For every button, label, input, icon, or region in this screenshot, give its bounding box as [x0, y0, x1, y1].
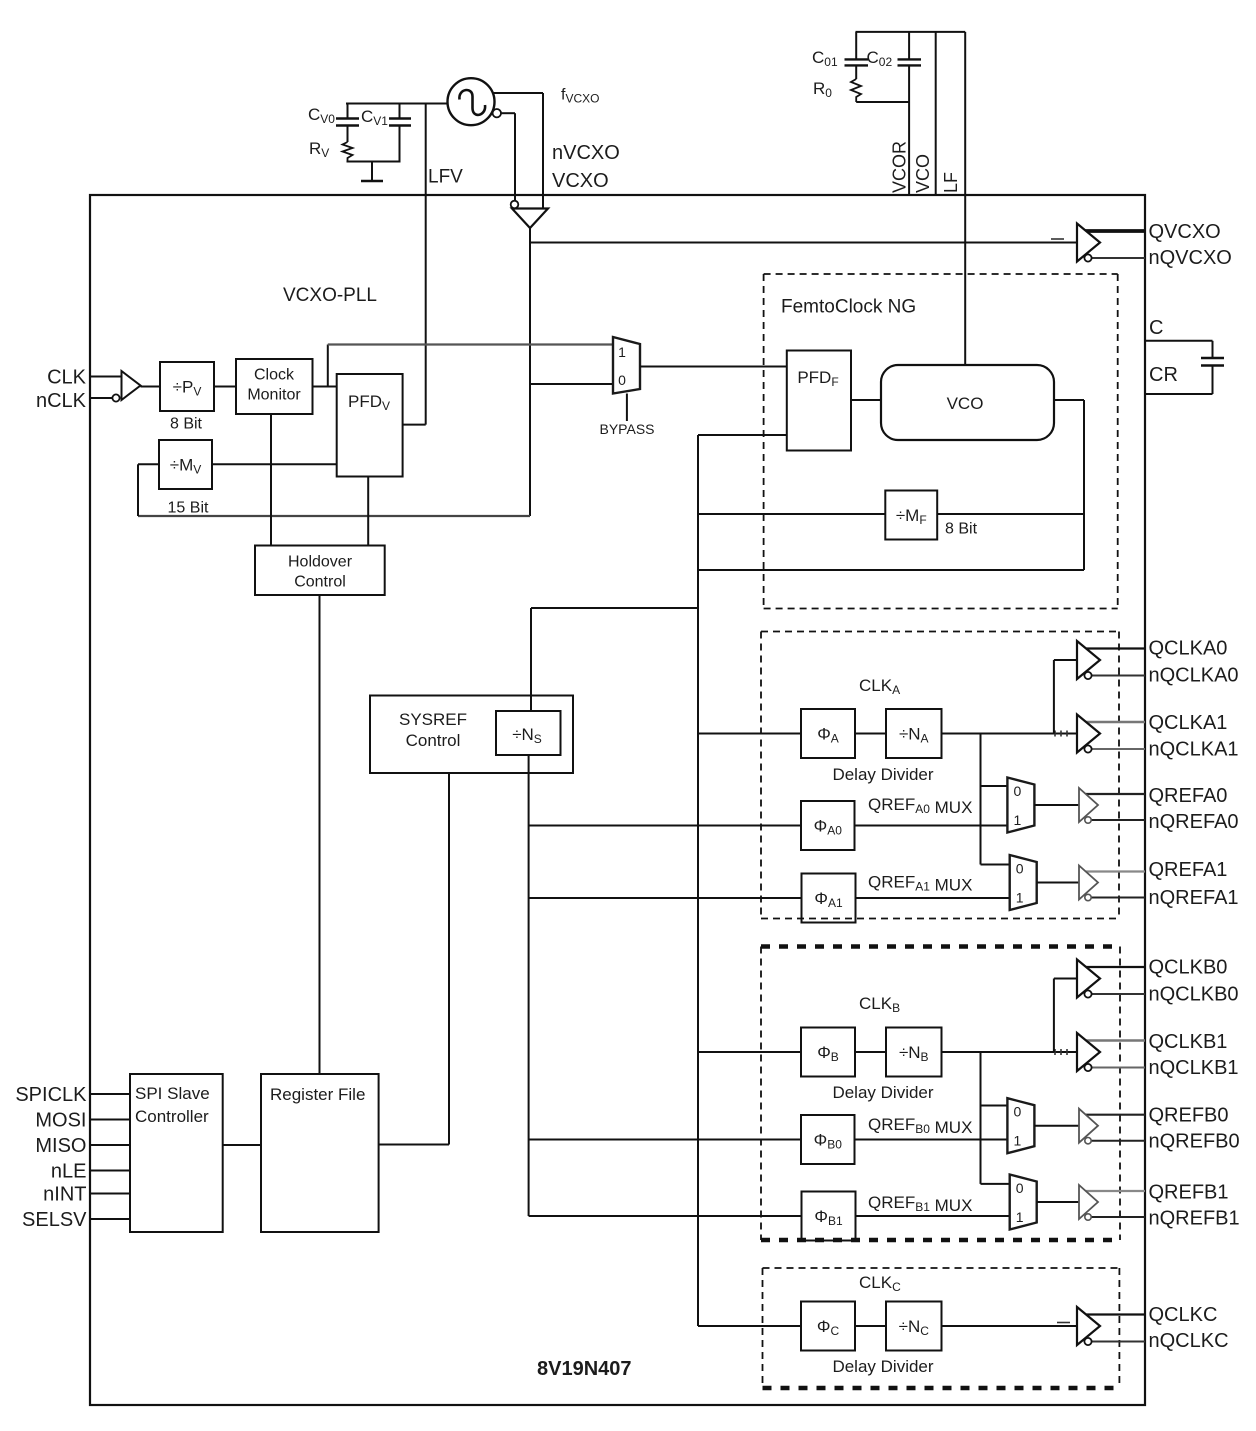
svg-text:VCO: VCO — [913, 154, 933, 193]
SPI Slave Controller block — [130, 1074, 223, 1232]
CLK input buffer — [112, 371, 140, 402]
svg-text:QCLKA0: QCLKA0 — [1149, 638, 1228, 660]
capacitor C02 — [898, 32, 922, 102]
svg-text:nQCLKB1: nQCLKB1 — [1149, 1057, 1239, 1079]
divider/phase block PhiA1 — [802, 874, 856, 923]
wire NA output — [942, 733, 1078, 735]
svg-text:QCLKB0: QCLKB0 — [1149, 957, 1228, 979]
wire to PhiA — [698, 733, 801, 735]
CLKB bank dashed boundary — [761, 947, 1120, 1241]
wire MISO pin — [90, 1144, 130, 1146]
divider NS — [496, 711, 561, 755]
svg-text:0: 0 — [1016, 1180, 1024, 1196]
wire to PhiB — [698, 1051, 801, 1053]
svg-text:BYPASS: BYPASS — [600, 421, 655, 437]
output buffer QCLKB0 — [1077, 960, 1145, 998]
svg-text:nQREFB0: nQREFB0 — [1149, 1131, 1240, 1153]
mux QREFB1 — [1010, 1175, 1037, 1230]
wire PhiA1 to mux — [856, 897, 1010, 899]
svg-text:nVCXO: nVCXO — [552, 142, 620, 164]
svg-text:nQVCXO: nQVCXO — [1149, 247, 1232, 269]
svg-text:Delay Divider: Delay Divider — [832, 1083, 933, 1102]
svg-text:FemtoClock NG: FemtoClock NG — [781, 297, 916, 318]
svg-text:Delay Divider: Delay Divider — [832, 765, 933, 784]
resistor RV — [343, 142, 353, 162]
svg-text:QCLKC: QCLKC — [1149, 1304, 1218, 1326]
svg-text:QREFB1: QREFB1 — [1149, 1182, 1229, 1204]
mux QREFB0 — [1007, 1098, 1034, 1153]
svg-text:8 Bit: 8 Bit — [170, 416, 203, 433]
wire PFDV output to LFV — [403, 424, 426, 426]
wire NS to PhiB0 — [529, 1139, 801, 1141]
svg-text:LF: LF — [941, 172, 961, 193]
divider/phase block ÷MF — [885, 491, 937, 540]
wire nVCXO from bubble — [501, 113, 515, 200]
svg-text:15 Bit: 15 Bit — [168, 500, 209, 517]
chip boundary box — [90, 195, 1145, 1405]
wire SYSREF Control to Register File link — [448, 773, 450, 1145]
wire PhiB to NB — [855, 1051, 886, 1053]
svg-text:Delay Divider: Delay Divider — [832, 1357, 933, 1376]
wire NS to PhiA0 — [529, 825, 801, 827]
wire MV to PFDV — [212, 463, 337, 465]
svg-text:VCXO: VCXO — [552, 170, 609, 192]
wire branch up to bypass mux input 1 — [328, 345, 613, 387]
wire branch to QCLKA0 — [1054, 660, 1077, 734]
wire SELSV pin — [90, 1218, 130, 1220]
wire SPICLK pin — [90, 1093, 130, 1095]
wire LF pin — [964, 32, 966, 195]
wire muxB1 to buffer — [1037, 1201, 1079, 1203]
svg-text:1: 1 — [1016, 1209, 1024, 1225]
wire MV loop bottom — [138, 515, 530, 517]
wire feedback into PFDF — [698, 434, 787, 436]
svg-text:nQREFB1: nQREFB1 — [1149, 1208, 1240, 1230]
output buffer QCLKC — [1077, 1307, 1145, 1345]
divider/phase block PhiA — [801, 709, 855, 758]
wire VCO pin — [935, 32, 937, 195]
mux QREFA1 — [1010, 855, 1037, 910]
wire PhiA0 to mux — [855, 825, 1008, 827]
wire muxB0 to buffer — [1034, 1125, 1079, 1127]
wire Register File to SYSREF link — [379, 1144, 449, 1146]
svg-text:VCOR: VCOR — [890, 141, 910, 193]
output buffer QCLKA1 — [1077, 715, 1145, 753]
wire Holdover to Register File — [319, 595, 321, 1074]
svg-text:Holdover: Holdover — [288, 554, 353, 571]
wire LF into VCO — [964, 195, 966, 365]
svg-text:QREFB0: QREFB0 — [1149, 1105, 1229, 1127]
wire nLE pin — [90, 1170, 130, 1172]
svg-text:Control: Control — [294, 574, 346, 591]
wire Clock Monitor to Holdover — [270, 414, 272, 546]
svg-text:nQCLKA0: nQCLKA0 — [1149, 665, 1239, 687]
wire SPI to Register File — [223, 1144, 261, 1146]
svg-text:CR: CR — [1149, 364, 1178, 386]
Holdover Control block — [255, 546, 385, 596]
svg-text:LFV: LFV — [428, 167, 463, 188]
CLKC bank dashed boundary — [763, 1268, 1120, 1388]
wire into MV — [138, 463, 159, 465]
wire to bypass mux input 0 — [530, 383, 613, 385]
wire muxA1 to buffer — [1037, 882, 1079, 884]
svg-text:Controller: Controller — [135, 1107, 209, 1126]
svg-text:Clock: Clock — [254, 367, 295, 384]
svg-text:MOSI: MOSI — [35, 1110, 86, 1132]
wire BYPASS stub — [626, 394, 628, 422]
wire NS output bus vertical — [528, 755, 530, 1216]
wire CR pin — [1145, 393, 1213, 395]
tick mark on QVCXO input — [1051, 238, 1064, 240]
wire VCO distribution horizontal — [698, 569, 1084, 571]
wire PhiB1 to mux — [856, 1215, 1010, 1217]
wire nCLK pin — [90, 397, 112, 399]
divider/phase block PhiA0 — [801, 801, 855, 850]
capacitor CV1 — [389, 104, 411, 162]
output buffer QREFB0 — [1079, 1109, 1145, 1144]
divider/phase block ÷NC — [886, 1302, 942, 1351]
wire top-right loop filter rail — [856, 31, 966, 33]
capacitor C01 — [845, 32, 869, 79]
output buffer QREFB1 — [1079, 1185, 1145, 1220]
svg-text:QREFA1: QREFA1 — [1149, 859, 1228, 881]
svg-text:0: 0 — [1014, 783, 1022, 799]
wire to QVCXO driver — [530, 242, 1077, 244]
wire R0/C02 bottom rail — [856, 101, 910, 103]
VCO block — [881, 365, 1054, 440]
wire VCXO buffer output vertical — [529, 228, 531, 516]
ground — [361, 162, 383, 182]
svg-text:SPICLK: SPICLK — [15, 1084, 87, 1106]
wire NB output — [942, 1051, 1078, 1053]
output buffer QCLKA0 — [1077, 641, 1145, 679]
resistor R0 — [851, 79, 861, 102]
svg-text:8 Bit: 8 Bit — [945, 521, 978, 538]
svg-text:Register File: Register File — [270, 1085, 365, 1104]
wire branch to QCLKB0 — [1054, 979, 1077, 1053]
svg-text:CLK: CLK — [47, 367, 87, 389]
svg-text:SPI Slave: SPI Slave — [135, 1084, 210, 1103]
wire QREF A drop bus — [981, 734, 1010, 865]
svg-text:VCXO-PLL: VCXO-PLL — [283, 285, 377, 306]
CLKA bank dashed boundary — [761, 632, 1119, 919]
wire NC output — [942, 1325, 1080, 1327]
svg-text:1: 1 — [1014, 812, 1022, 828]
svg-text:nCLK: nCLK — [36, 390, 87, 412]
Clock Monitor block — [236, 359, 313, 414]
SYSREF Control block — [370, 696, 573, 774]
output buffer QVCXO — [1077, 224, 1145, 262]
VCXO input buffer (inverting) — [511, 201, 548, 228]
svg-text:1: 1 — [618, 344, 626, 360]
bypass mux — [613, 337, 640, 394]
svg-text:QCLKA1: QCLKA1 — [1149, 712, 1228, 734]
svg-text:QREFA0: QREFA0 — [1149, 785, 1228, 807]
svg-text:SELSV: SELSV — [22, 1209, 87, 1231]
divider/phase block PhiB1 — [802, 1192, 856, 1241]
svg-text:QVCXO: QVCXO — [1149, 221, 1221, 243]
wire PhiA to NA — [855, 733, 886, 735]
wire PhiC to NC — [855, 1325, 886, 1327]
output buffer QREFA1 — [1079, 866, 1145, 901]
output buffer QREFA0 — [1079, 788, 1145, 823]
wire QREF B drop bus — [981, 1052, 1010, 1184]
wire feedback MF path — [698, 435, 1084, 514]
svg-text:nQREFA0: nQREFA0 — [1149, 811, 1239, 833]
PFDV phase detector — [337, 374, 403, 477]
svg-text:nINT: nINT — [43, 1184, 86, 1206]
svg-text:VCO: VCO — [947, 394, 984, 413]
inversion bubble on oscillator — [493, 109, 501, 117]
wire nINT pin — [90, 1193, 130, 1195]
wire MV loop left — [137, 464, 139, 516]
wire loop filter bottom rail — [347, 161, 401, 163]
wire CLK pin — [90, 376, 122, 378]
divider/phase block PhiB0 — [801, 1115, 855, 1164]
output buffer QCLKB1 — [1077, 1033, 1145, 1071]
wire to PhiC — [698, 1325, 801, 1327]
FemtoClock NG dashed boundary — [764, 274, 1118, 609]
svg-text:MISO: MISO — [35, 1135, 86, 1157]
svg-text:nLE: nLE — [51, 1161, 87, 1183]
wire MOSI pin — [90, 1119, 130, 1121]
svg-text:SYSREF: SYSREF — [399, 710, 467, 729]
tick mark on NC output — [1057, 1322, 1070, 1324]
divider/phase block ÷NB — [886, 1028, 942, 1077]
capacitor C-CR — [1201, 341, 1224, 394]
wire PhiB0 to mux — [855, 1139, 1008, 1141]
svg-text:0: 0 — [618, 372, 626, 388]
wire VCO output — [1054, 400, 1084, 570]
svg-text:C: C — [1149, 317, 1163, 339]
svg-text:1: 1 — [1014, 1133, 1022, 1149]
wire VCOR pin — [908, 102, 910, 195]
wire PFDV to Holdover — [367, 477, 369, 546]
wire top-left loop filter top rail — [346, 103, 449, 105]
wire Clock Monitor to PFDV — [313, 386, 337, 388]
wire NS to PhiA1 — [529, 897, 802, 899]
wire LFV pin line — [425, 104, 427, 425]
wire PV to Clock Monitor — [214, 386, 236, 388]
svg-text:nQCLKC: nQCLKC — [1149, 1330, 1229, 1352]
wire C pin — [1145, 340, 1213, 342]
mux QREFA0 — [1007, 778, 1034, 833]
wire branch to SYSREF NS — [531, 608, 698, 711]
capacitor CV0 — [336, 104, 359, 143]
wire VCO distribution vertical bus — [697, 514, 699, 1326]
svg-text:nQREFA1: nQREFA1 — [1149, 887, 1239, 909]
divider/phase block PhiC — [801, 1302, 855, 1351]
wire muxA0 to buffer — [1034, 804, 1079, 806]
svg-text:8V19N407: 8V19N407 — [537, 1358, 632, 1380]
wire PFDF to VCO — [851, 399, 881, 401]
svg-text:QCLKB1: QCLKB1 — [1149, 1031, 1228, 1053]
wire buffer to PV — [141, 386, 161, 388]
wire NS to PhiB1 — [529, 1215, 801, 1217]
wire fVCXO — [493, 93, 544, 209]
wire bypass mux output to PFDF — [640, 366, 787, 368]
svg-text:1: 1 — [1016, 889, 1024, 905]
svg-text:Control: Control — [406, 731, 461, 750]
PFDF phase detector — [787, 351, 851, 451]
divider/phase block ÷NA — [886, 709, 942, 758]
svg-text:0: 0 — [1016, 860, 1024, 876]
oscillator VCXO crystal — [448, 78, 495, 125]
svg-text:nQCLKA1: nQCLKA1 — [1149, 739, 1239, 761]
divider/phase block ÷MV — [159, 440, 212, 489]
svg-text:0: 0 — [1014, 1104, 1022, 1120]
Register File block — [261, 1074, 379, 1232]
svg-text:Monitor: Monitor — [247, 387, 301, 404]
divider/phase block ÷PV — [160, 362, 214, 411]
divider/phase block PhiB — [801, 1028, 855, 1077]
svg-text:nQCLKB0: nQCLKB0 — [1149, 984, 1239, 1006]
